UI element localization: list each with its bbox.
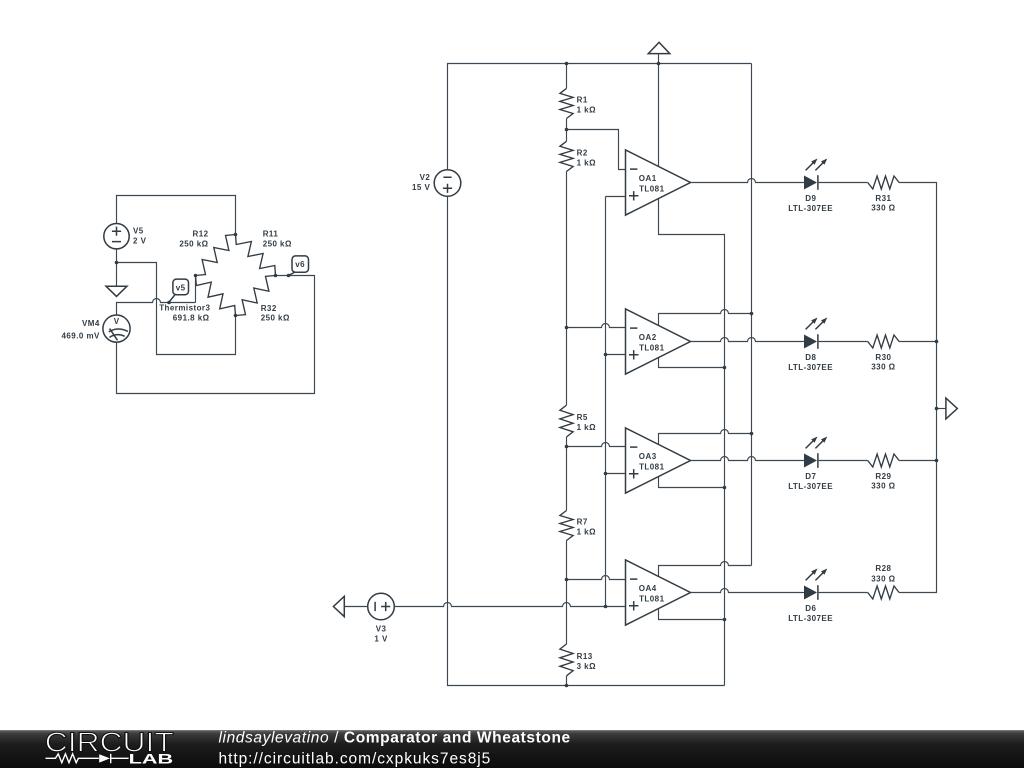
wire D7 cathode to R29 — [818, 460, 868, 462]
power flag — [648, 42, 670, 53]
wire OA1 inverting input dogleg — [567, 130, 626, 170]
wire D8 cathode to R30 — [818, 341, 868, 343]
svg-text:lindsaylevatino / Comparator a: lindsaylevatino / Comparator and Wheatst… — [219, 730, 571, 747]
voltage source V3 1V — [368, 593, 395, 643]
svg-text:TL081: TL081 — [639, 462, 664, 471]
resistor R29 330 ohm — [868, 454, 899, 491]
LED D7 LTL-307EE — [788, 437, 833, 491]
wire junction to bridge bottom corner — [117, 263, 236, 355]
wire OA2 inverting input — [567, 324, 626, 328]
wire V3 to input flag — [344, 606, 367, 608]
svg-text:D8: D8 — [805, 353, 816, 362]
svg-text:1 kΩ: 1 kΩ — [577, 158, 596, 167]
LED D9 LTL-307EE — [788, 159, 833, 213]
junction dots (middle) — [565, 62, 569, 66]
node v6 flag — [289, 256, 309, 276]
wire ladder segments — [566, 64, 568, 686]
svg-text:R28: R28 — [875, 564, 891, 573]
svg-text:LTL-307EE: LTL-307EE — [788, 204, 833, 213]
wire output flag stub — [937, 408, 946, 410]
svg-text:1 kΩ: 1 kΩ — [577, 423, 596, 432]
svg-text:330 Ω: 330 Ω — [871, 204, 895, 213]
svg-text:469.0 mV: 469.0 mV — [62, 331, 101, 340]
svg-text:v6: v6 — [295, 260, 305, 269]
LED D6 LTL-307EE — [788, 569, 833, 623]
svg-text:VM4: VM4 — [82, 319, 100, 328]
wire OA4 V- pin to negative rail — [659, 609, 725, 620]
wire OA3 V- pin to negative rail — [659, 477, 725, 488]
input flag — [333, 596, 344, 616]
wire V2 bottom down and bottom rail — [448, 196, 725, 685]
svg-text:http://circuitlab.com/cxpkuks7: http://circuitlab.com/cxpkuks7es8j5 — [219, 751, 492, 768]
svg-text:LTL-307EE: LTL-307EE — [788, 614, 833, 623]
svg-text:15 V: 15 V — [412, 183, 430, 192]
svg-text:330 Ω: 330 Ω — [871, 363, 895, 372]
resistor R13 — [560, 644, 573, 676]
svg-text:LTL-307EE: LTL-307EE — [788, 482, 833, 491]
wire V5 top to bridge top corner — [117, 196, 236, 235]
svg-text:330 Ω: 330 Ω — [871, 574, 895, 583]
wire D6 cathode to R28 — [818, 592, 868, 594]
svg-text:1 kΩ: 1 kΩ — [577, 528, 596, 537]
wire OA2 V- pin to negative rail — [659, 357, 725, 367]
svg-text:R29: R29 — [875, 472, 891, 481]
wire OA4 inverting input — [567, 576, 626, 580]
svg-text:D6: D6 — [805, 604, 816, 613]
op-amp OA3 TL081 — [626, 428, 691, 493]
svg-text:V2: V2 — [420, 173, 431, 182]
svg-text:1 V: 1 V — [374, 635, 388, 644]
wire V3 output to noninverting rail with hops — [394, 603, 605, 607]
op-amp OA4 TL081 — [626, 560, 691, 625]
wire OA1 V- pin and negative rail — [659, 199, 725, 686]
junction dots (left circuit) — [115, 261, 119, 265]
voltage source V5 2V — [104, 224, 147, 249]
svg-text:OA4: OA4 — [639, 584, 657, 593]
svg-text:250 kΩ: 250 kΩ — [263, 240, 292, 249]
svg-text:OA2: OA2 — [639, 333, 657, 342]
resistor R30 330 ohm — [868, 335, 899, 372]
svg-text:D7: D7 — [805, 472, 816, 481]
wire ground stem — [116, 263, 118, 287]
junction dots (right rail) — [935, 340, 939, 344]
svg-text:LTL-307EE: LTL-307EE — [788, 363, 833, 372]
svg-text:TL081: TL081 — [639, 343, 664, 352]
thermistor Thermistor3 691.8k (bridge lower-left arm) — [196, 276, 236, 316]
svg-text:R31: R31 — [875, 194, 891, 203]
wire OA1 output — [691, 179, 805, 183]
svg-text:TL081: TL081 — [639, 184, 664, 193]
svg-text:R5: R5 — [577, 413, 588, 422]
resistor R2 — [560, 141, 573, 171]
wire VM4 bottom loop to bridge right corner (node v6) — [117, 276, 315, 394]
wire node v5 row to VM4 top with crossover hop — [117, 299, 196, 316]
svg-text:250 kΩ: 250 kΩ — [261, 314, 290, 323]
svg-text:691.8 kΩ: 691.8 kΩ — [173, 313, 210, 322]
svg-text:R2: R2 — [577, 148, 588, 157]
LED D8 LTL-307EE — [788, 318, 833, 372]
svg-text:R1: R1 — [577, 95, 588, 104]
logo resistor-diode squiggle — [46, 754, 99, 763]
wire bridge left corner down to node v5 — [195, 276, 197, 303]
svg-text:D9: D9 — [805, 194, 816, 203]
wire OA1 V+ pin from top rail — [658, 64, 660, 167]
wire top rail — [448, 64, 752, 170]
svg-text:R13: R13 — [577, 652, 593, 661]
svg-text:OA3: OA3 — [639, 452, 657, 461]
svg-text:R7: R7 — [577, 518, 588, 527]
svg-text:R12: R12 — [192, 230, 208, 239]
svg-text:V5: V5 — [133, 227, 144, 236]
svg-text:V3: V3 — [376, 624, 387, 633]
wire V5 bottom to junction — [116, 249, 118, 263]
wire D9 cathode to R31 — [818, 182, 868, 184]
node v5 flag — [169, 279, 189, 302]
wire OA4 output — [691, 589, 805, 593]
wire OA4 V+ pin to positive rail — [659, 562, 752, 577]
svg-text:R11: R11 — [263, 230, 279, 239]
voltage source V2 15V — [412, 170, 461, 197]
wire right rail — [899, 183, 936, 593]
svg-text:R30: R30 — [875, 353, 891, 362]
output flag — [946, 398, 957, 419]
resistor R12 250k (bridge upper-left arm) — [196, 235, 236, 276]
op-amp OA1 TL081 — [626, 150, 691, 215]
wire OA2 output — [691, 338, 805, 342]
svg-text:250 kΩ: 250 kΩ — [179, 240, 208, 249]
resistor R32 250k (bridge lower-right arm) — [236, 276, 276, 316]
ground — [106, 286, 127, 296]
resistor R11 250k (bridge upper-right arm) — [236, 235, 276, 276]
svg-text:OA1: OA1 — [639, 174, 657, 183]
wire noninverting rail with input stubs — [606, 197, 626, 607]
voltmeter VM4 — [62, 315, 131, 342]
wire OA3 inverting input — [567, 443, 626, 447]
svg-text:3 kΩ: 3 kΩ — [577, 662, 596, 671]
resistor R31 330 ohm — [868, 176, 899, 213]
resistor R28 330 ohm — [868, 564, 899, 599]
svg-text:v5: v5 — [176, 283, 186, 292]
svg-text:TL081: TL081 — [639, 594, 664, 603]
svg-text:Thermistor3: Thermistor3 — [159, 304, 210, 313]
op-amp OA2 TL081 — [626, 309, 691, 374]
wire OA2 V+ pin to positive rail — [659, 310, 752, 326]
wire OA3 V+ pin to positive rail — [659, 430, 752, 445]
svg-text:V: V — [114, 317, 120, 326]
CircuitLab logo — [45, 727, 174, 767]
resistor R5 — [560, 405, 573, 437]
svg-text:1 kΩ: 1 kΩ — [577, 105, 596, 114]
resistor R1 — [560, 88, 573, 118]
svg-text:LAB: LAB — [129, 752, 174, 767]
wire OA3 output — [691, 457, 805, 461]
resistor R7 — [560, 511, 573, 541]
wire positive rail — [751, 64, 753, 566]
svg-text:R32: R32 — [261, 304, 277, 313]
svg-text:330 Ω: 330 Ω — [871, 482, 895, 491]
svg-text:2 V: 2 V — [133, 237, 147, 246]
